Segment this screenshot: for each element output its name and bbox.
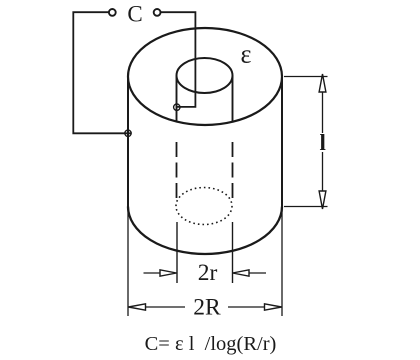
svg-text:2R: 2R	[193, 294, 221, 320]
svg-text:C: C	[127, 1, 142, 26]
svg-text:C= ε l /log(R/r): C= ε l /log(R/r)	[145, 333, 277, 355]
svg-text:l: l	[320, 130, 326, 155]
svg-text:2r: 2r	[198, 260, 218, 286]
svg-text:ε: ε	[241, 39, 252, 68]
